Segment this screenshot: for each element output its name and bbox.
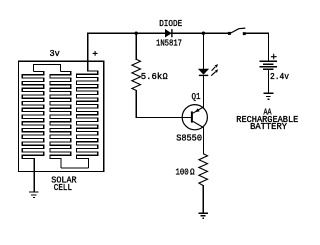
wire LED cathode to emitter [202, 75, 204, 107]
switch left contact [228, 32, 231, 35]
LED cathode bar [199, 74, 208, 76]
plus sign solar terminal [93, 51, 98, 56]
svg-text:DIODE: DIODE [159, 18, 182, 29]
wire 100 ohm to ground [202, 186, 204, 213]
svg-text:2.4v: 2.4v [270, 71, 289, 82]
transistor Q1 circle [182, 105, 207, 130]
svg-text:1N5817: 1N5817 [156, 38, 182, 49]
svg-text:Ω: Ω [190, 166, 195, 177]
svg-text:Ω: Ω [163, 71, 168, 82]
transistor Q1 emitter line with arrow (PNP) [193, 107, 204, 113]
svg-text:BATTERY: BATTERY [250, 121, 287, 132]
wire collector to 100 ohm resistor [202, 127, 204, 153]
solar cell box [19, 61, 104, 171]
solar cell top bus tab [33, 64, 60, 71]
transistor Q1 base bar [191, 111, 193, 122]
wire top rail left (solar + to switch) [88, 33, 229, 71]
resistor R2 100 ohm zigzag [199, 154, 208, 186]
solar cell serpentine column 3 (fed from + wire) [76, 71, 97, 168]
battery plates [260, 61, 277, 69]
wire LED branch from rail [202, 33, 204, 69]
LED emission arrow 1 [212, 67, 216, 71]
svg-text:100: 100 [176, 166, 189, 177]
svg-text:CELL: CELL [54, 182, 72, 193]
resistor R1 5.6k ohm zigzag [132, 59, 141, 90]
svg-text:Q1: Q1 [192, 91, 201, 102]
plus sign battery terminal [271, 54, 277, 60]
switch right contact [243, 32, 246, 35]
junction node at 5.6k branch [135, 32, 138, 35]
junction node at LED branch [202, 32, 205, 35]
ground (100 ohm) [198, 213, 208, 218]
svg-text:5.6k: 5.6k [141, 71, 163, 82]
ground (battery) [264, 93, 274, 99]
wire top rail right (switch to battery) [245, 33, 268, 61]
transistor Q1 collector line [193, 121, 204, 127]
solar cell serpentine column 1 (with exit wire to ground) [22, 71, 43, 191]
ground (solar cell) [29, 192, 39, 198]
wire 5.6k bottom to transistor base [136, 90, 191, 117]
wire 5.6k branch from rail [135, 33, 137, 59]
diode D1 triangle [165, 30, 171, 37]
wire battery minus to ground [267, 70, 269, 93]
LED triangle [199, 69, 208, 74]
diode D1 cathode bar [171, 29, 173, 37]
solar cell serpentine column 2 [50, 71, 71, 167]
switch lever [231, 28, 246, 33]
svg-text:3v: 3v [50, 48, 61, 59]
svg-text:S8550: S8550 [176, 133, 202, 144]
solar cell bottom bus [61, 167, 89, 169]
LED emission arrow 2 [211, 72, 215, 76]
